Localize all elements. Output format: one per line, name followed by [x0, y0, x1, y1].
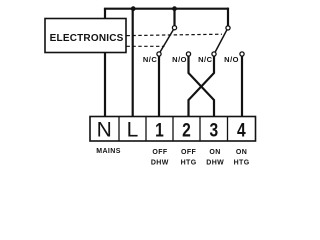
svg-text:N: N — [97, 119, 112, 142]
svg-text:OFF: OFF — [152, 149, 168, 156]
switch S1 lever — [160, 30, 173, 52]
wire: N terminal to electronics box — [104, 53, 106, 117]
svg-text:ELECTRONICS: ELECTRONICS — [50, 33, 124, 44]
svg-text:N/O: N/O — [224, 55, 239, 64]
svg-text:L: L — [127, 119, 139, 142]
terminal divider 2|3 — [199, 117, 201, 142]
wire: drop to switch S2 common — [227, 8, 229, 26]
svg-text:OFF: OFF — [181, 149, 197, 156]
contact N/O of S1 — [186, 52, 190, 56]
electronics box U1 — [45, 19, 126, 53]
junction dot at L wire / top rail — [131, 6, 136, 11]
svg-text:DHW: DHW — [206, 159, 224, 166]
contact N/C of S1 — [157, 52, 161, 56]
switch S2 lever — [215, 30, 227, 52]
wire: S2 N/C contact crossover to terminal 2 — [189, 56, 215, 116]
terminal divider L|1 — [145, 117, 147, 142]
svg-text:1: 1 — [155, 119, 164, 141]
terminal divider N|L — [118, 117, 120, 142]
svg-text:ON: ON — [209, 149, 220, 156]
svg-text:MAINS: MAINS — [96, 148, 121, 155]
terminal divider 3|4 — [227, 117, 229, 142]
wire: S2 N/O contact to terminal 4 — [241, 56, 243, 116]
svg-text:HTG: HTG — [234, 159, 250, 166]
svg-text:4: 4 — [237, 119, 246, 141]
terminal divider 1|2 — [172, 117, 174, 142]
wire: live feed from box top to top rail — [104, 9, 106, 19]
switch S1 pivot contact — [172, 26, 176, 30]
svg-text:3: 3 — [209, 119, 218, 141]
svg-text:DHW: DHW — [151, 159, 169, 166]
svg-text:N/O: N/O — [172, 55, 187, 64]
contact N/O of S2 — [240, 52, 244, 56]
wire: S1 N/C contact to terminal 1 — [158, 56, 160, 116]
dashed control link to switch S1 — [127, 45, 165, 47]
terminal block outline — [90, 117, 256, 142]
contact N/C of S2 — [212, 52, 216, 56]
svg-text:N/C: N/C — [143, 55, 158, 64]
junction dot at S1 common / top rail — [172, 6, 177, 11]
wire: L terminal to top rail — [132, 9, 134, 117]
svg-text:N/C: N/C — [198, 55, 213, 64]
switch S1 common stub — [173, 10, 175, 26]
svg-text:ON: ON — [236, 149, 247, 156]
dashed control link to switch S2 — [127, 34, 223, 35]
wire: top horizontal rail — [104, 8, 228, 10]
switch S2 pivot contact — [226, 26, 230, 30]
svg-text:HTG: HTG — [181, 159, 197, 166]
svg-text:2: 2 — [182, 119, 191, 141]
wire: S1 N/O contact crossover to terminal 3 — [189, 56, 215, 116]
